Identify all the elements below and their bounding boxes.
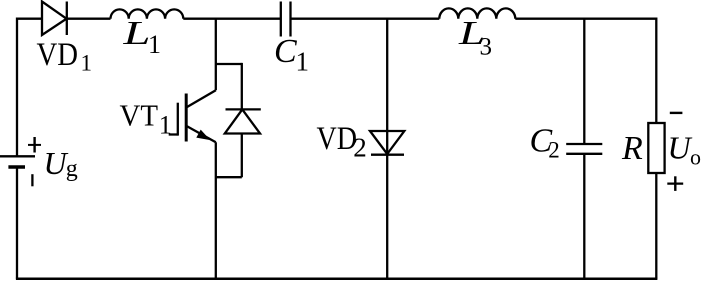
svg-text:2: 2 (548, 137, 560, 162)
transistor VT1 gate lead (169, 133, 178, 135)
svg-text:o: o (690, 144, 701, 169)
transistor VT1 emitter arrowhead (196, 130, 210, 141)
battery minus mark (vertical tick) (31, 174, 33, 186)
svg-text:3: 3 (480, 34, 493, 61)
svg-text:1: 1 (296, 47, 310, 77)
diode VD2 triangle (370, 131, 404, 154)
svg-text:C: C (274, 33, 297, 70)
wire C2 branch lower (583, 154, 585, 279)
svg-text:L: L (122, 15, 150, 52)
diode VD1 cathode bar (66, 2, 68, 36)
svg-text:g: g (66, 156, 78, 182)
transistor VT1 emitter diagonal (187, 126, 216, 142)
capacitor C2 top plate (566, 143, 602, 145)
wire bottom rail (16, 278, 658, 281)
wire VT1 branch upper (215, 18, 217, 91)
wire stub to internal diode top (216, 63, 242, 65)
transistor VT1 gate bar (177, 103, 179, 136)
capacitor C2 bottom plate (566, 153, 602, 155)
wire VT1 branch lower (215, 142, 217, 279)
wire left rail below battery (16, 167, 18, 279)
IGBT internal diode cathode bar (226, 108, 261, 110)
svg-text:VD: VD (317, 121, 358, 157)
wire right rail below R (655, 173, 657, 279)
svg-text:2: 2 (353, 133, 367, 163)
wire top-left: left rail top + top wire to VD1 (17, 19, 42, 156)
svg-text:1: 1 (159, 110, 172, 139)
battery plus sign (28, 144, 41, 146)
wire internal diode branch (241, 63, 243, 177)
IGBT internal diode triangle (225, 109, 260, 133)
transistor VT1 body bar (185, 94, 188, 142)
diode VD1 (42, 2, 67, 36)
wire C1 to L3 (291, 18, 440, 20)
resistor R body (648, 123, 664, 173)
wire C2 branch upper (583, 18, 585, 144)
wire L3 to top-right corner, right rail down to R (515, 19, 656, 123)
diode VD2 cathode bar (371, 154, 404, 156)
svg-text:VD: VD (37, 37, 79, 73)
svg-text:U: U (668, 129, 693, 165)
capacitor C1 right plate (289, 2, 291, 37)
battery Ug positive long plate (0, 155, 35, 157)
battery Ug negative short plate (8, 165, 25, 169)
inductor L1 (111, 9, 184, 18)
wire VD1 to L1 (67, 18, 111, 20)
svg-text:1: 1 (148, 30, 161, 59)
transistor VT1 collector diagonal (186, 90, 216, 107)
inductor L3 (439, 8, 515, 18)
svg-text:R: R (621, 130, 643, 167)
svg-text:VT: VT (120, 98, 159, 133)
wire L1 to C1 (183, 18, 280, 20)
plus sign below R (667, 183, 683, 185)
wire stub to internal diode bottom (216, 176, 242, 178)
svg-text:1: 1 (81, 50, 93, 75)
capacitor C1 left plate (280, 2, 282, 37)
minus sign above R (670, 112, 683, 114)
wire VD2 branch (386, 18, 388, 279)
